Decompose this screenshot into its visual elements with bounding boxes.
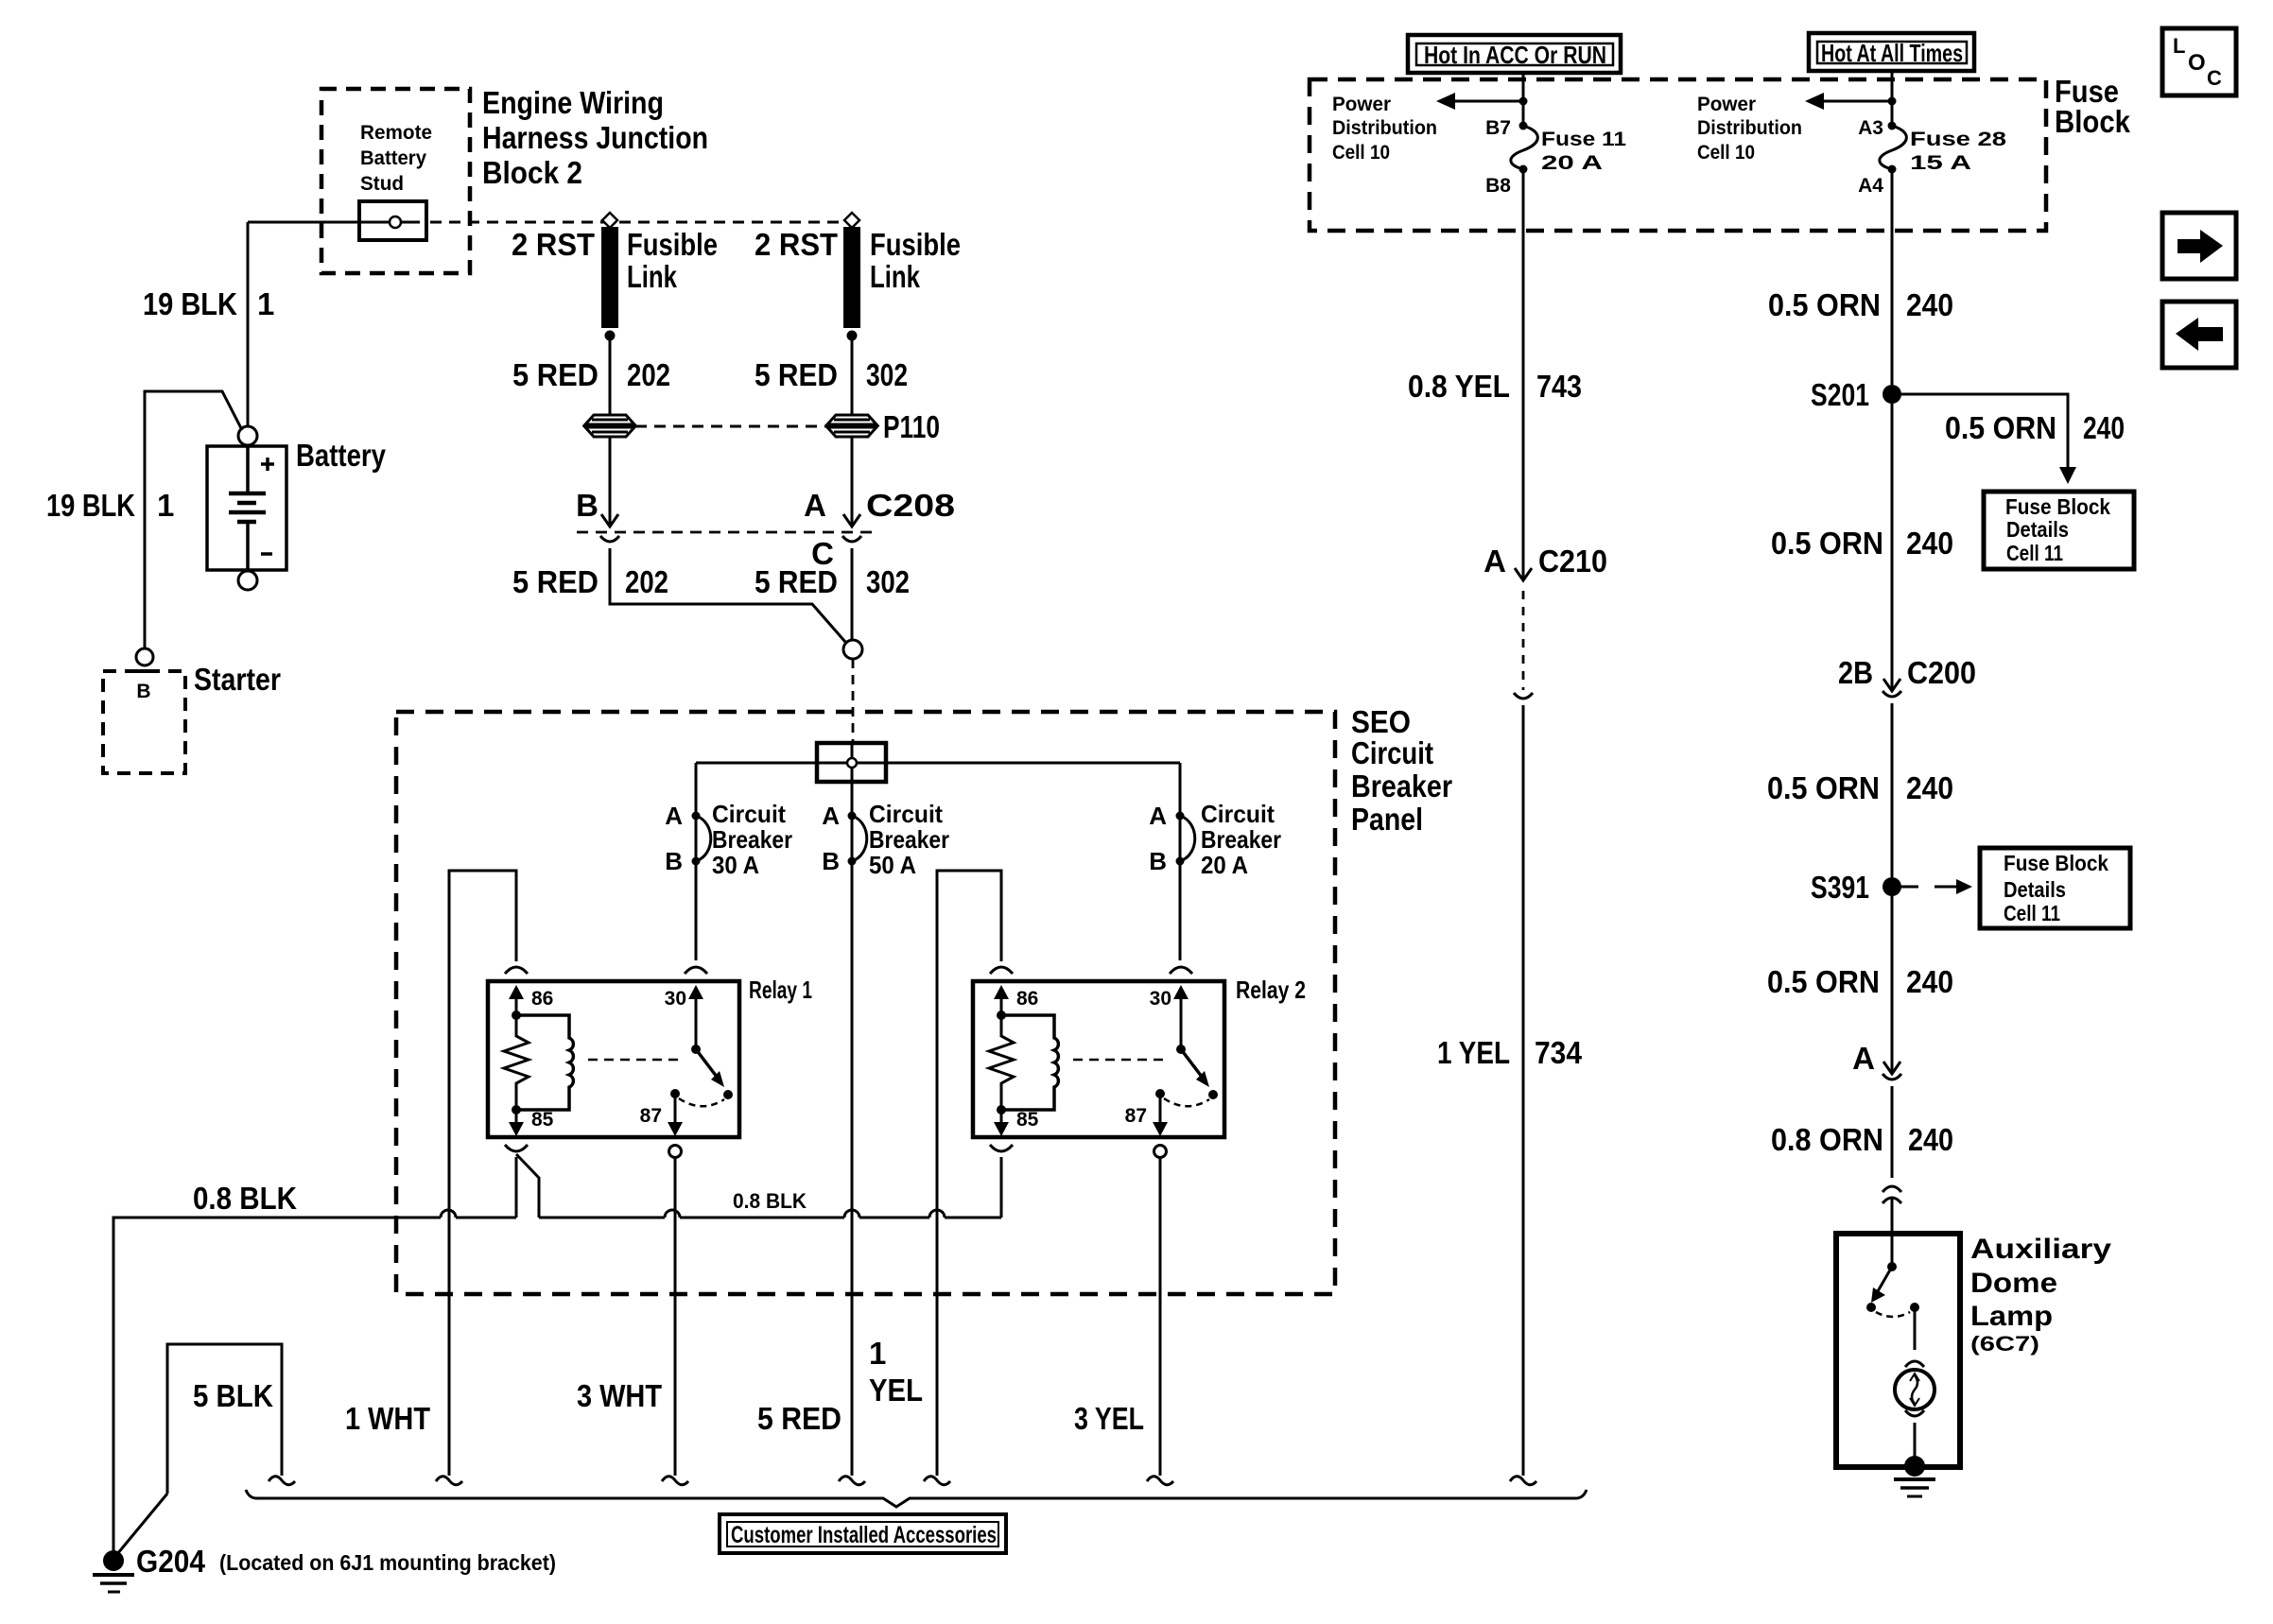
svg-text:5 BLK: 5 BLK (193, 1378, 273, 1413)
svg-text:2 RST: 2 RST (755, 227, 838, 262)
svg-text:1 YEL: 1 YEL (1437, 1035, 1510, 1070)
svg-text:0.5 ORN: 0.5 ORN (1768, 287, 1881, 322)
svg-text:Lamp: Lamp (1970, 1301, 2053, 1332)
svg-text:0.5 ORN: 0.5 ORN (1945, 410, 2056, 445)
svg-text:Breaker: Breaker (1351, 769, 1452, 803)
svg-text:B: B (136, 681, 150, 702)
svg-text:Fusible: Fusible (627, 227, 718, 262)
svg-text:Circuit: Circuit (712, 800, 786, 828)
svg-text:1: 1 (257, 286, 274, 321)
svg-text:Circuit: Circuit (1201, 800, 1275, 828)
svg-text:A: A (1149, 802, 1167, 830)
svg-text:20 A: 20 A (1541, 152, 1603, 174)
svg-text:0.5 ORN: 0.5 ORN (1771, 526, 1883, 561)
svg-text:85: 85 (1016, 1109, 1039, 1131)
svg-text:Hot In ACC Or RUN: Hot In ACC Or RUN (1424, 41, 1606, 69)
svg-text:5 RED: 5 RED (755, 357, 838, 392)
svg-text:Battery: Battery (296, 438, 387, 473)
svg-text:Customer Installed Accessories: Customer Installed Accessories (731, 1522, 997, 1548)
svg-text:3 WHT: 3 WHT (577, 1378, 662, 1413)
svg-text:Details: Details (2004, 877, 2066, 902)
svg-text:Cell 11: Cell 11 (2006, 541, 2063, 565)
svg-text:240: 240 (1906, 287, 1953, 322)
svg-text:Hot At All Times: Hot At All Times (1821, 39, 1963, 67)
svg-text:240: 240 (2083, 410, 2125, 445)
svg-text:Block 2: Block 2 (482, 155, 582, 190)
svg-text:Breaker: Breaker (1201, 825, 1281, 854)
svg-text:Breaker: Breaker (712, 825, 792, 854)
svg-text:Cell 10: Cell 10 (1332, 142, 1390, 164)
svg-text:O: O (2188, 50, 2206, 76)
svg-text:0.8 BLK: 0.8 BLK (733, 1189, 807, 1213)
svg-text:15 A: 15 A (1910, 152, 1971, 174)
svg-text:(Located on 6J1 mounting brack: (Located on 6J1 mounting bracket) (219, 1550, 556, 1575)
svg-text:1 WHT: 1 WHT (345, 1401, 430, 1436)
svg-text:L: L (2173, 34, 2185, 58)
svg-text:Harness Junction: Harness Junction (482, 120, 708, 155)
svg-text:B: B (576, 488, 599, 523)
svg-text:Fuse 28: Fuse 28 (1910, 129, 2006, 150)
svg-text:1: 1 (869, 1336, 886, 1371)
svg-text:C208: C208 (866, 488, 955, 523)
svg-text:20 A: 20 A (1201, 851, 1248, 879)
svg-text:302: 302 (866, 564, 910, 599)
svg-text:B8: B8 (1485, 175, 1511, 197)
svg-text:86: 86 (1016, 988, 1038, 1010)
svg-text:0.5 ORN: 0.5 ORN (1767, 964, 1880, 999)
svg-text:B: B (665, 847, 683, 875)
svg-text:3 YEL: 3 YEL (1074, 1401, 1144, 1436)
svg-text:302: 302 (866, 357, 908, 392)
svg-text:0.8 BLK: 0.8 BLK (193, 1181, 297, 1216)
svg-text:A4: A4 (1858, 175, 1883, 197)
svg-text:Fusible: Fusible (870, 227, 961, 262)
svg-text:C: C (2207, 66, 2222, 90)
svg-text:Cell 11: Cell 11 (2004, 901, 2060, 925)
svg-text:Details: Details (2006, 517, 2069, 542)
svg-text:85: 85 (531, 1109, 554, 1131)
svg-text:202: 202 (627, 357, 670, 392)
svg-text:Block: Block (2055, 104, 2131, 139)
svg-text:0.8 YEL: 0.8 YEL (1408, 369, 1510, 404)
svg-text:Distribution: Distribution (1697, 117, 1802, 139)
svg-text:SEO: SEO (1351, 704, 1411, 739)
svg-text:Circuit: Circuit (1351, 735, 1433, 770)
svg-text:2 RST: 2 RST (512, 227, 595, 262)
svg-text:5 RED: 5 RED (512, 357, 599, 392)
svg-text:Fuse 11: Fuse 11 (1541, 129, 1626, 150)
svg-text:G204: G204 (136, 1544, 206, 1579)
svg-text:A: A (804, 488, 826, 523)
svg-text:Starter: Starter (194, 662, 281, 697)
svg-text:Fuse Block: Fuse Block (2004, 851, 2108, 875)
svg-text:5 RED: 5 RED (757, 1401, 842, 1436)
svg-text:5 RED: 5 RED (512, 564, 599, 599)
svg-text:P110: P110 (883, 409, 940, 444)
svg-text:30 A: 30 A (712, 851, 759, 879)
svg-text:B: B (1149, 847, 1167, 875)
svg-text:0.5 ORN: 0.5 ORN (1767, 770, 1880, 805)
svg-text:30: 30 (665, 988, 686, 1010)
svg-text:Engine Wiring: Engine Wiring (482, 85, 664, 120)
svg-text:Cell 10: Cell 10 (1697, 142, 1755, 164)
svg-text:19 BLK: 19 BLK (46, 488, 135, 523)
svg-text:2B: 2B (1838, 655, 1873, 690)
svg-text:A: A (665, 802, 683, 830)
svg-text:19 BLK: 19 BLK (143, 286, 237, 321)
svg-text:87: 87 (640, 1105, 662, 1127)
svg-text:50 A: 50 A (869, 851, 916, 879)
svg-text:Dome: Dome (1970, 1268, 2057, 1299)
svg-text:Link: Link (627, 259, 678, 294)
svg-text:B7: B7 (1485, 117, 1511, 139)
svg-text:Relay 2: Relay 2 (1236, 976, 1306, 1004)
svg-text:YEL: YEL (869, 1373, 923, 1408)
svg-text:Power: Power (1332, 94, 1391, 115)
svg-text:A: A (1852, 1041, 1875, 1076)
svg-text:A3: A3 (1858, 117, 1883, 139)
svg-text:Auxiliary: Auxiliary (1970, 1234, 2111, 1265)
svg-text:86: 86 (531, 988, 553, 1010)
svg-text:30: 30 (1150, 988, 1171, 1010)
svg-text:202: 202 (625, 564, 668, 599)
svg-text:Remote: Remote (360, 122, 432, 144)
svg-text:Distribution: Distribution (1332, 117, 1437, 139)
svg-text:743: 743 (1536, 369, 1582, 404)
svg-text:1: 1 (157, 488, 174, 523)
svg-text:C210: C210 (1538, 544, 1607, 579)
svg-text:240: 240 (1906, 526, 1953, 561)
svg-text:S391: S391 (1811, 870, 1869, 905)
svg-text:(6C7): (6C7) (1970, 1332, 2039, 1356)
svg-text:240: 240 (1908, 1122, 1953, 1157)
svg-text:Relay 1: Relay 1 (749, 976, 812, 1004)
svg-text:240: 240 (1906, 964, 1953, 999)
svg-text:Circuit: Circuit (869, 800, 943, 828)
svg-text:Link: Link (870, 259, 921, 294)
svg-text:A: A (1484, 544, 1506, 579)
svg-text:A: A (822, 802, 840, 830)
svg-text:Battery: Battery (360, 147, 426, 169)
svg-text:Stud: Stud (360, 173, 404, 195)
svg-text:B: B (822, 847, 840, 875)
svg-text:Fuse Block: Fuse Block (2005, 494, 2110, 519)
svg-text:Panel: Panel (1351, 802, 1423, 837)
svg-text:0.8 ORN: 0.8 ORN (1771, 1122, 1883, 1157)
svg-text:87: 87 (1125, 1105, 1147, 1127)
svg-text:734: 734 (1535, 1035, 1583, 1070)
svg-text:S201: S201 (1811, 377, 1869, 412)
svg-text:Power: Power (1697, 94, 1756, 115)
svg-text:5 RED: 5 RED (755, 564, 838, 599)
svg-text:240: 240 (1906, 770, 1953, 805)
svg-text:C200: C200 (1907, 655, 1976, 690)
svg-text:Breaker: Breaker (869, 825, 949, 854)
